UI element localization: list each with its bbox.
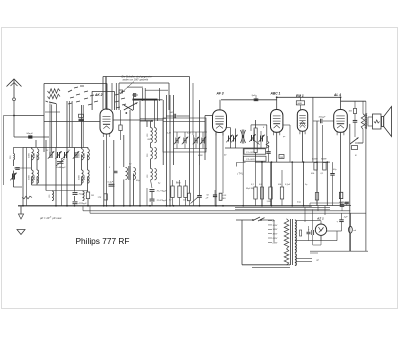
cap left edge: [14, 168, 20, 175]
heater drop: [83, 206, 90, 213]
svg-text:0-440µµF: 0-440µµF: [57, 166, 67, 169]
oscillator box: [119, 83, 169, 110]
svg-text:70µµF: 70µµF: [79, 194, 86, 196]
svg-text:100µµF: 100µµF: [319, 117, 327, 119]
coil column T1: [147, 101, 158, 180]
svg-text:3000: 3000: [78, 152, 80, 158]
zig det: [266, 136, 269, 148]
wire 67: [66, 101, 68, 206]
micro labels: [46, 127, 357, 204]
wire v83: [82, 105, 84, 148]
ground symbol: [17, 230, 25, 235]
wire left stub: [4, 116, 15, 186]
svg-text:0,1: 0,1: [321, 173, 324, 175]
left chain: [13, 148, 23, 188]
trimmer left edge: [10, 173, 16, 181]
wire 199.5: [199, 100, 201, 165]
svg-text:3µF: 3µF: [252, 95, 256, 97]
eye pattern: [300, 121, 306, 126]
cap C3: [73, 202, 88, 205]
wire AF3 top: [219, 100, 221, 110]
det bus junctions: [261, 161, 328, 163]
switch tone: [350, 129, 359, 150]
heater tails: [296, 253, 320, 261]
rail EM1: [277, 96, 341, 98]
wire 325 drop: [324, 206, 326, 215]
resistor R16: [321, 163, 327, 175]
wire 262 drop: [261, 162, 263, 206]
antenna A1: [7, 79, 22, 98]
wire 348.8: [349, 124, 351, 251]
cap det: [266, 145, 271, 162]
tuning cap C1: [56, 159, 66, 169]
label AK2: [94, 93, 103, 97]
svg-text:0,1µF: 0,1µF: [285, 184, 291, 186]
svg-text:125V: 125V: [273, 225, 278, 227]
units note: [40, 216, 62, 220]
wire 327 drop: [326, 162, 328, 206]
svg-text:AF 3: AF 3: [216, 92, 224, 96]
cap 4uF plus: [305, 207, 321, 245]
resistor R15: [311, 163, 317, 175]
cap C2: [73, 193, 86, 196]
coil L4a: [82, 149, 90, 160]
svg-text:ander um 180° gedreht: ander um 180° gedreht: [123, 79, 149, 82]
wire AK2 top: [106, 77, 163, 121]
resistor R12: [267, 187, 273, 203]
outer box: [103, 77, 193, 136]
earth arrow: [18, 206, 23, 219]
heater line 2: [90, 212, 366, 214]
wire v142: [142, 88, 144, 101]
power box bottom: [310, 250, 368, 252]
capacitor 3pF: [252, 95, 259, 101]
ground bus: [18, 205, 351, 207]
svg-text:8000: 8000: [34, 174, 36, 180]
tube ABC1: [271, 110, 283, 136]
box C7a: [244, 149, 266, 154]
wire ABC1 bottom: [276, 132, 278, 162]
svg-text:245V: 245V: [272, 241, 278, 244]
wire 271.5 drop: [271, 162, 273, 206]
squiggle: [22, 148, 32, 206]
wire 147: [146, 121, 148, 206]
wire 166.5: [166, 95, 168, 206]
bus det: [255, 161, 330, 163]
coil left edge: [10, 154, 15, 160]
wire 318 drop: [317, 206, 319, 211]
tube AK2: [100, 109, 113, 137]
svg-text:8000: 8000: [34, 152, 36, 158]
tube EM1: [297, 110, 307, 135]
wire 31.5: [31, 148, 33, 186]
wire 292 drop: [291, 162, 293, 206]
capacitor C osc: [132, 93, 138, 97]
coil L6: [83, 191, 85, 201]
cap AL4 k: [353, 114, 358, 129]
svg-text:ABC 1: ABC 1: [270, 92, 281, 96]
top rail: [190, 77, 194, 206]
capacitor small: [114, 171, 118, 173]
wire 113.8: [113, 140, 115, 206]
resistor Rak: [219, 193, 227, 200]
wire AF3 bottom: [216, 133, 223, 206]
svg-text:AL 4: AL 4: [333, 93, 341, 97]
wire v52: [51, 105, 53, 153]
cap 8uF: [339, 202, 344, 211]
speaker LS: [368, 107, 392, 137]
label T4: [237, 163, 246, 176]
svg-text:C7b 5870: C7b 5870: [246, 159, 256, 161]
svg-text:3000: 3000: [28, 174, 30, 180]
wire 130: [129, 110, 131, 206]
svg-text:220V: 220V: [272, 238, 278, 240]
label 50uF: [206, 195, 210, 200]
svg-text:0,1: 0,1: [251, 184, 254, 186]
wire AL4 bottom: [340, 132, 342, 206]
cap Cs: [307, 226, 311, 241]
resistor R13: [278, 184, 284, 199]
svg-text:8000: 8000: [84, 174, 86, 180]
wire 360 drop: [358, 142, 363, 144]
bus junctions: [22, 205, 304, 207]
coupling rail: [221, 99, 277, 101]
switch lever: [124, 103, 138, 114]
label AF3: [216, 92, 224, 96]
transformer secondary fil2: [295, 254, 296, 266]
wire pot: [255, 120, 257, 162]
svg-text:50000: 50000: [312, 159, 318, 161]
resistor R11: [261, 187, 264, 199]
svg-text:5MΩ: 5MΩ: [298, 103, 303, 105]
cap 0.1 d: [342, 202, 350, 204]
diode stub: [283, 125, 290, 162]
wire h147: [23, 147, 88, 149]
wire 81.5: [81, 105, 83, 185]
resistor R6: [176, 183, 181, 198]
wire HT top: [296, 221, 321, 224]
EM1 box 5M: [296, 101, 304, 105]
resistor Rk: [98, 194, 108, 200]
wire 317 drop: [316, 121, 318, 206]
svg-text:2µF: 2µF: [343, 217, 348, 219]
grid cap AL4: [313, 117, 334, 124]
antenna plug: [13, 98, 16, 137]
coil L3a: [32, 149, 39, 160]
coil L1: [48, 89, 61, 99]
wire resnet: [256, 162, 283, 206]
svg-text:3000: 3000: [78, 174, 80, 180]
wire 223 ext: [223, 148, 243, 206]
wire v159: [159, 88, 161, 101]
label 3000: [28, 152, 36, 180]
wire AK2 cathode: [106, 134, 108, 206]
wire v145: [144, 88, 146, 121]
resistor Rs: [300, 230, 302, 236]
coil Losc: [126, 166, 136, 180]
wire EM1 top: [300, 97, 302, 109]
wire 303.5 drop: [303, 162, 305, 206]
oscillator switch S2 contacts: [115, 91, 126, 108]
label AZ1: [316, 217, 324, 221]
wire 46: [45, 140, 47, 191]
box C7b: [244, 156, 267, 161]
wire HT bottom: [296, 231, 337, 241]
coil L3b: [32, 170, 39, 183]
component pad: [79, 114, 85, 120]
grid wire: [44, 121, 100, 123]
wire EM1 bottom: [302, 131, 304, 162]
title Philips 777 RF: [76, 236, 130, 246]
wire 365.9 long: [365, 101, 367, 251]
transformer core: [291, 219, 293, 265]
svg-text:160V: 160V: [273, 234, 278, 236]
wire v72: [71, 101, 73, 148]
svg-text:AK 2: AK 2: [94, 93, 103, 97]
contact block: [119, 90, 123, 140]
wire 336 drop: [346, 204, 348, 206]
capacitor 50pF: [14, 133, 49, 138]
wire h121: [140, 119, 205, 122]
label coil1: [147, 139, 151, 141]
power rail b: [310, 203, 348, 207]
AL4 top rail: [341, 100, 366, 102]
svg-text:1M: 1M: [91, 195, 94, 197]
transformer secondary HT: [295, 220, 296, 243]
wire mains left: [242, 220, 290, 267]
tube AF3: [213, 110, 227, 136]
wire h87: [127, 86, 143, 88]
wire ABC1 top: [276, 97, 278, 109]
wire v69: [68, 101, 70, 148]
padder caps: [150, 190, 168, 206]
resistor R18: [349, 101, 357, 113]
resistor Rg AL4: [339, 192, 342, 198]
svg-text:EM 1: EM 1: [296, 94, 304, 98]
wire 133.5: [133, 93, 135, 206]
resistor R17: [315, 170, 318, 206]
heater line 1: [83, 210, 350, 212]
power rail a: [235, 207, 330, 209]
switch lever left: [46, 101, 57, 104]
shaft bar: [133, 99, 163, 101]
tube AZ1: [315, 224, 326, 241]
wire 322.5 mid: [322, 125, 324, 162]
wire h90: [145, 89, 168, 91]
label AL4: [333, 93, 341, 97]
AK2 stage box: [92, 91, 114, 110]
trimmer row: [174, 132, 208, 149]
misc junctions: [13, 96, 341, 122]
annotation note: [120, 76, 152, 95]
wire 312.9: [312, 97, 314, 162]
coil L5: [49, 191, 54, 201]
mixer coupling cap M4: [166, 111, 190, 118]
cap det3: [213, 190, 217, 206]
band switch S1 contacts: [68, 86, 98, 105]
wire 36: [36, 140, 37, 185]
resistor R5: [169, 186, 190, 202]
band switch box: [44, 84, 107, 153]
field coil: [349, 226, 357, 233]
IF can box 1: [163, 118, 206, 152]
wire 170: [169, 95, 171, 206]
wire AL4 top: [340, 97, 342, 109]
volume pot: [253, 128, 260, 153]
svg-text:70-770µµF: 70-770µµF: [157, 191, 168, 193]
coil L4b: [82, 170, 90, 183]
label ABC1: [270, 92, 281, 96]
wire v56 up: [55, 104, 57, 148]
wire v116: [115, 83, 117, 110]
output transformer T2: [355, 101, 367, 143]
box 100: [279, 155, 284, 159]
wire 123.8: [123, 135, 125, 206]
svg-text:3000: 3000: [28, 152, 30, 158]
wire 152 col: [151, 121, 153, 188]
resistor R1: [86, 192, 94, 199]
wire AZ1 right: [327, 230, 342, 232]
wire 61.5: [61, 158, 63, 206]
wire 173.5: [173, 95, 175, 165]
wire r5: [173, 180, 186, 206]
mains switch: [236, 217, 274, 221]
transformer secondary fil1: [295, 244, 296, 253]
wire 23: [22, 148, 24, 206]
svg-text:NSNE: NSNE: [321, 159, 327, 161]
label 8000: [78, 152, 86, 180]
svg-text:8000: 8000: [84, 152, 86, 158]
svg-text:µF usw.: µF usw.: [53, 216, 63, 220]
capacitor Ck: [108, 182, 115, 187]
svg-text:4700µµF: 4700µµF: [79, 202, 88, 205]
svg-text:50µµF: 50µµF: [27, 133, 34, 135]
wire 350.4 v: [349, 213, 351, 251]
wire v112: [111, 83, 113, 110]
label EM1: [296, 94, 304, 98]
transformer primary: [284, 219, 289, 265]
wire 103.8: [103, 140, 105, 206]
tube AL4: [334, 110, 348, 136]
wire h168: [14, 167, 31, 169]
IF can 2 trimmers: [225, 125, 267, 148]
wire corner 112: [45, 111, 60, 113]
svg-text:Philips 777 RF: Philips 777 RF: [76, 236, 130, 246]
label 30u: [246, 188, 255, 190]
wire 163: [162, 100, 164, 165]
resistor R7: [183, 186, 187, 202]
cap 2uF: [337, 213, 349, 231]
resistor R10: [251, 184, 257, 199]
wire 140: [139, 101, 141, 206]
wire h185: [32, 184, 82, 186]
wire h190: [46, 190, 88, 192]
svg-text:0,1µF: 0,1µF: [108, 182, 114, 184]
tap labels: [268, 221, 278, 245]
svg-text:( T4 ): ( T4 ): [238, 173, 244, 176]
wire 88: [87, 148, 90, 206]
wire v50: [49, 104, 51, 153]
svg-text:145V: 145V: [273, 228, 278, 231]
wire 74.5: [74, 148, 76, 206]
svg-text:µF = 10: µF = 10: [40, 216, 50, 220]
wire 56: [55, 148, 57, 206]
svg-text:AZ 1: AZ 1: [316, 217, 324, 221]
svg-text:70-370µµF: 70-370µµF: [157, 200, 168, 202]
cap right: [330, 162, 335, 206]
cap det2: [191, 165, 202, 206]
wire antenna feed: [14, 115, 44, 117]
trimmer row left: [48, 151, 79, 159]
wire 205: [205, 116, 212, 161]
